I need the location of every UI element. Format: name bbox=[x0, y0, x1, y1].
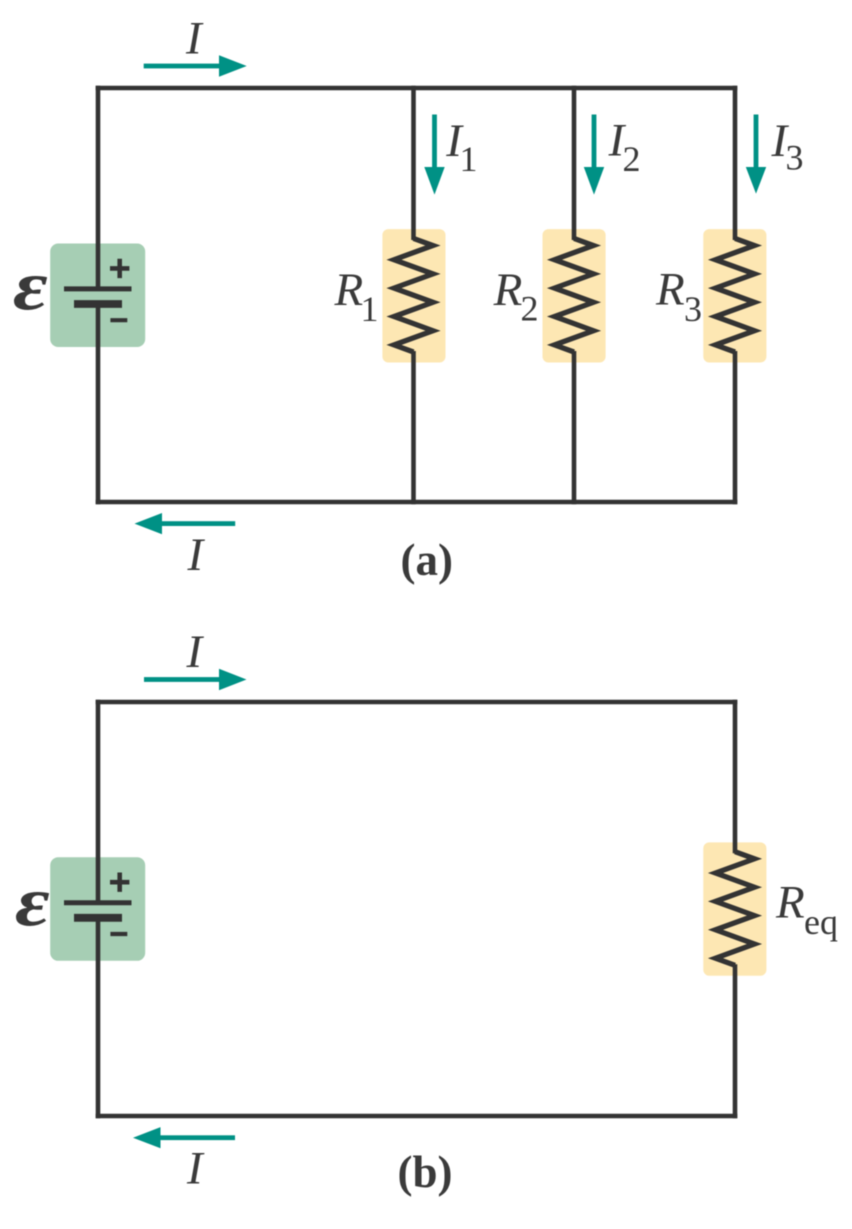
wire right upper (a) bbox=[733, 86, 738, 240]
svg-text:I: I bbox=[186, 1143, 205, 1195]
current arrow I1 bbox=[424, 115, 444, 195]
resistor Req zigzag bbox=[716, 852, 755, 966]
current arrow I bottom (b) bbox=[133, 1127, 235, 1148]
svg-text:(a): (a) bbox=[401, 535, 453, 585]
wire bottom (a) bbox=[96, 500, 738, 505]
battery minus sign (a) bbox=[110, 318, 127, 322]
wire left upper (a) bbox=[96, 86, 101, 289]
svg-text:3: 3 bbox=[786, 138, 804, 178]
wire branch R2 upper bbox=[572, 86, 577, 240]
wire left upper (b) bbox=[96, 700, 101, 903]
battery plus sign (b) bbox=[110, 873, 129, 892]
svg-text:3: 3 bbox=[684, 289, 702, 329]
resistor R2 zigzag bbox=[555, 238, 594, 352]
battery plus sign (a) bbox=[110, 259, 129, 278]
wire right lower (a) bbox=[733, 351, 738, 504]
resistor R2 highlight box bbox=[543, 229, 606, 362]
current arrow I2 bbox=[584, 115, 604, 195]
battery bottom plate (b) bbox=[74, 914, 122, 922]
wire left lower (b) bbox=[96, 918, 101, 1119]
current arrow I bottom (a) bbox=[135, 513, 236, 534]
svg-text:(b): (b) bbox=[398, 1147, 453, 1197]
current arrow I top (b) bbox=[144, 669, 247, 690]
svg-text:ε: ε bbox=[13, 246, 48, 325]
svg-text:R: R bbox=[334, 264, 364, 316]
battery bottom plate (a) bbox=[74, 300, 122, 308]
svg-text:I: I bbox=[185, 13, 204, 65]
svg-text:2: 2 bbox=[521, 289, 539, 329]
svg-text:ε: ε bbox=[15, 862, 50, 941]
resistor Req highlight box bbox=[703, 842, 766, 975]
battery top plate (b) bbox=[64, 900, 132, 905]
wire bottom (b) bbox=[96, 1114, 738, 1119]
svg-text:R: R bbox=[775, 877, 805, 929]
svg-text:1: 1 bbox=[460, 139, 478, 179]
wire top (a) bbox=[96, 86, 738, 91]
resistor R1 highlight box bbox=[382, 229, 445, 362]
current arrow I3 bbox=[746, 115, 766, 194]
battery top plate (a) bbox=[64, 286, 132, 291]
svg-text:eq: eq bbox=[804, 902, 838, 942]
resistor R1 zigzag bbox=[394, 238, 433, 352]
svg-text:R: R bbox=[655, 264, 685, 316]
wire top (b) bbox=[96, 700, 738, 705]
wire left lower (a) bbox=[96, 304, 101, 504]
svg-text:2: 2 bbox=[623, 139, 641, 179]
wire branch R2 lower bbox=[572, 351, 577, 504]
wire right lower (b) bbox=[733, 964, 738, 1118]
resistor R3 highlight box bbox=[703, 229, 766, 362]
battery highlight box (a) bbox=[50, 244, 145, 348]
svg-text:I: I bbox=[187, 529, 206, 581]
battery highlight box (b) bbox=[50, 857, 145, 961]
resistor R3 zigzag bbox=[716, 238, 755, 352]
svg-text:I: I bbox=[186, 626, 205, 678]
wire right upper (b) bbox=[733, 700, 738, 854]
wire branch R1 upper bbox=[411, 86, 416, 240]
current arrow I top (a) bbox=[144, 55, 247, 76]
svg-text:R: R bbox=[493, 264, 523, 316]
battery minus sign (b) bbox=[110, 932, 127, 936]
svg-text:1: 1 bbox=[361, 289, 379, 329]
wire branch R1 lower bbox=[411, 351, 416, 504]
